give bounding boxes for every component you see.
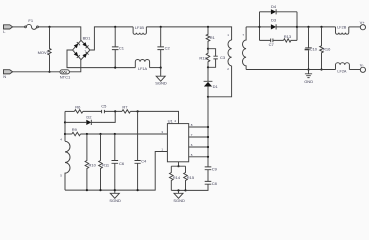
node R11 bottom: [99, 189, 101, 191]
svg-text:LF1A: LF1A: [138, 67, 148, 71]
rectifier box left vertical: [259, 12, 261, 41]
connector N: [3, 70, 12, 79]
capacitor C9: [205, 166, 218, 181]
capacitor C6: [112, 134, 125, 190]
op-amp U1: [161, 119, 188, 162]
node R14 R15 bottom: [177, 189, 179, 191]
resistor R9: [72, 127, 81, 136]
node L-MOV junction: [48, 26, 50, 28]
svg-text:R9: R9: [72, 127, 78, 132]
wire to R9: [65, 133, 72, 135]
wire fuse to bridge, turns down into bridge top: [38, 27, 80, 40]
capacitor C5: [101, 103, 107, 113]
svg-text:SGND: SGND: [109, 198, 121, 203]
svg-text:C8: C8: [212, 181, 218, 186]
node clamp top: [207, 48, 209, 50]
diode D2: [65, 111, 115, 125]
resistor R11: [99, 134, 110, 190]
bottom rail left to U1 pin1: [65, 152, 167, 191]
node C10 top: [307, 26, 309, 28]
node pin8: [207, 126, 209, 128]
node D2 left junction: [64, 121, 66, 123]
ground SGND left rail: [109, 190, 121, 203]
pin 5 stub: [189, 156, 208, 158]
node C10 bottom: [307, 68, 309, 70]
wire rectifier to LF2B: [297, 26, 336, 28]
resistor R13: [284, 34, 298, 42]
svg-text:R14: R14: [173, 175, 181, 180]
wire N to NTC: [13, 71, 60, 73]
svg-text:~: ~: [79, 56, 81, 60]
wire R15 bottom to C8: [186, 184, 209, 190]
svg-text:C2: C2: [165, 45, 171, 50]
pin 8 stub: [189, 126, 208, 128]
bias winding T1 aux: [60, 138, 70, 191]
resistor R12: [199, 49, 209, 68]
svg-text:C3: C3: [220, 55, 226, 60]
svg-text:SGND: SGND: [173, 198, 185, 203]
node R16 bottom: [320, 68, 322, 70]
node C6 top: [114, 133, 116, 135]
wire secondary bottom rail: [246, 69, 335, 71]
svg-text:C1: C1: [119, 45, 125, 50]
svg-text:U1: U1: [168, 119, 174, 124]
capacitor C10: [305, 27, 318, 70]
wire R6 line: [65, 110, 74, 112]
svg-text:LF2B: LF2B: [337, 26, 347, 30]
wire LF2A to V-: [349, 69, 360, 71]
resistor R15: [171, 166, 195, 190]
bridge rectifier BD1: [73, 35, 92, 59]
svg-text:+: +: [84, 49, 86, 53]
svg-text:BD1: BD1: [83, 35, 92, 40]
terminal V+: [360, 20, 366, 30]
fuse F1: [25, 18, 39, 30]
node R10 top: [86, 133, 88, 135]
wire R6 to C5: [83, 110, 102, 112]
thermistor NTC1: [60, 70, 71, 80]
left bus vertical from bias winding: [64, 111, 66, 141]
capacitor C2: [157, 27, 170, 68]
wire bridge plus output riser to DC+ rail: [90, 27, 133, 50]
diode D1: [204, 67, 219, 97]
node SGND rail junction: [114, 189, 116, 191]
node R14 R15 top: [177, 165, 179, 167]
node R15 bottom rail: [184, 189, 186, 191]
wire drain to transformer primary bottom: [208, 66, 232, 97]
capacitor C4: [135, 111, 147, 190]
capacitor C8: [205, 181, 218, 186]
capacitor C3: [208, 49, 226, 68]
terminal V-: [360, 62, 366, 72]
wire drain vertical to U1 and caps: [207, 97, 209, 167]
svg-text:-: -: [74, 49, 75, 53]
svg-text:LF2A: LF2A: [337, 69, 347, 73]
inductor LF2B: [336, 26, 349, 35]
svg-text:R16: R16: [323, 46, 331, 51]
resistor R1: [206, 27, 215, 49]
svg-text:R12: R12: [199, 55, 207, 60]
wire C5 to R7: [104, 110, 122, 112]
ground GND secondary: [304, 70, 313, 84]
svg-text:C6: C6: [119, 161, 125, 166]
node pin6: [207, 146, 209, 148]
node pin5: [207, 156, 209, 158]
svg-text:NTC1: NTC1: [60, 74, 71, 79]
node C2 bottom junction: [160, 67, 162, 69]
svg-text:R13: R13: [284, 34, 292, 39]
node R16 top: [320, 26, 322, 28]
svg-text:GND: GND: [304, 79, 313, 84]
transformer T1 secondary winding: [242, 27, 246, 70]
pin 7 stub: [189, 136, 208, 138]
svg-text:D4: D4: [271, 4, 277, 9]
transformer T1 primary winding: [227, 33, 231, 71]
svg-text:C4: C4: [141, 159, 147, 164]
node C2 top: [160, 26, 162, 28]
wire secondary top to rectifier box: [246, 26, 259, 28]
node C4 bottom: [137, 189, 139, 191]
node R11 top: [99, 133, 101, 135]
wire LF2B to V+: [349, 26, 361, 28]
resistor R16: [320, 27, 331, 70]
svg-text:R6: R6: [75, 104, 81, 109]
inductor LF1B: [133, 26, 146, 35]
svg-text:R10: R10: [89, 163, 97, 168]
wire LF1A to C2 bottom junction: [150, 67, 161, 69]
inductor LF1A: [135, 59, 149, 70]
svg-text:SGND: SGND: [155, 81, 167, 86]
node R10 bottom: [86, 189, 88, 191]
capacitor C7: [260, 39, 284, 48]
svg-text:F1: F1: [28, 18, 33, 23]
resistor R6: [74, 104, 82, 113]
svg-text:N: N: [3, 74, 6, 79]
diode D3: [260, 17, 298, 29]
wire LF1B to C2 to R1 to transformer primary top: [146, 27, 231, 40]
varistor MOV1: [38, 27, 52, 72]
inductor LF2A: [336, 63, 350, 74]
svg-text:V-: V-: [360, 62, 364, 67]
wire R9 to U1 left pin: [81, 133, 168, 135]
connector L: [3, 25, 12, 34]
svg-text:LF1B: LF1B: [135, 26, 145, 30]
wire L to fuse: [13, 26, 25, 28]
node R1 top: [207, 26, 209, 28]
svg-text:C7: C7: [269, 42, 275, 47]
svg-text:V+: V+: [360, 20, 366, 25]
diode D4: [260, 4, 298, 14]
node pin7: [207, 136, 209, 138]
node C4 top junction: [137, 110, 139, 112]
svg-text:R11: R11: [102, 163, 110, 168]
node clamp bottom: [207, 66, 209, 68]
resistor R10: [85, 134, 97, 190]
svg-text:MOV1: MOV1: [38, 50, 50, 55]
node MOV-N junction: [48, 71, 50, 73]
node rectifier in: [258, 26, 260, 28]
capacitor C1: [112, 27, 125, 68]
resistor R7: [122, 104, 130, 113]
svg-text:R7: R7: [122, 104, 128, 109]
svg-text:R15: R15: [187, 175, 195, 180]
svg-text:C10: C10: [310, 47, 318, 52]
node C1 bottom: [114, 67, 116, 69]
wire bridge minus to DC- rail: [67, 50, 135, 68]
svg-text:D1: D1: [213, 84, 219, 89]
resistor R14: [170, 166, 186, 190]
svg-text:C5: C5: [101, 103, 107, 108]
U1 bottom stub: [178, 162, 180, 166]
svg-text:D3: D3: [271, 17, 277, 22]
svg-text:D2: D2: [86, 114, 92, 119]
node C1 top: [114, 26, 116, 28]
rectifier box right vertical: [296, 12, 298, 41]
node drain junction: [207, 96, 209, 98]
svg-text:~: ~: [79, 43, 81, 47]
node rectifier out: [296, 26, 298, 28]
node R9 left junction: [64, 133, 66, 135]
wire NTC to bridge bottom: [69, 60, 80, 72]
ground SGND under U1: [173, 190, 185, 203]
svg-text:R1: R1: [210, 35, 216, 40]
wire R7 to U1 top pin: [130, 111, 178, 123]
node C5-R7-D2 junction: [114, 110, 116, 112]
pin 6 stub: [189, 146, 208, 148]
ground SGND primary rail: [155, 68, 167, 86]
svg-text:C9: C9: [212, 166, 218, 171]
